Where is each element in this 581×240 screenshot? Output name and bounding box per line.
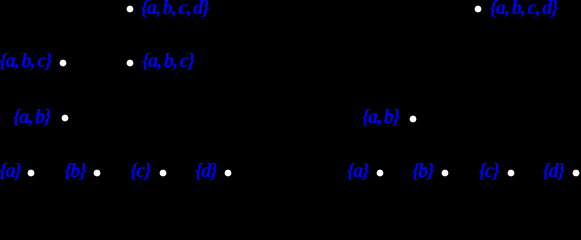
left poset: node {a,b,c} (second) dot bbox=[125, 58, 135, 68]
left poset: node {d} label bbox=[195, 159, 217, 183]
right poset: node {d} dot bbox=[571, 168, 581, 178]
left poset: node {a,b,c,d} label bbox=[141, 0, 209, 20]
right poset: node {b} label bbox=[412, 159, 434, 183]
left poset: node {a,b,c,d} dot bbox=[125, 4, 135, 14]
left poset: node {c} label bbox=[130, 159, 150, 183]
left poset: node {d} dot bbox=[223, 168, 233, 178]
right poset: node {d} label bbox=[543, 159, 565, 183]
left poset: node {b} dot bbox=[92, 168, 102, 178]
left poset: node {a,b} dot bbox=[60, 113, 70, 123]
right poset: node {c} dot bbox=[506, 168, 516, 178]
left poset: node {c} dot bbox=[158, 168, 168, 178]
left poset: node {a} label bbox=[0, 159, 21, 183]
right poset: node {a,b,c,d} dot bbox=[473, 4, 483, 14]
left poset: node {a,b,c} (first) label bbox=[0, 49, 52, 73]
right poset: node {b} dot bbox=[440, 168, 450, 178]
right poset: node {c} label bbox=[479, 159, 499, 183]
left poset: node {a,b,c} (first) dot bbox=[58, 58, 68, 68]
right poset: node {a,b} dot bbox=[408, 114, 418, 124]
left poset: node {b} label bbox=[64, 159, 86, 183]
right poset: node {a} label bbox=[347, 159, 369, 183]
right poset: node {a,b} label bbox=[362, 105, 399, 129]
left poset: node {a,b} label bbox=[13, 105, 50, 129]
left poset: node {a,b,c} (second) label bbox=[142, 49, 194, 73]
right poset: node {a,b,c,d} label bbox=[490, 0, 558, 20]
right poset: node {a} dot bbox=[375, 168, 385, 178]
left poset: node {a} dot bbox=[26, 168, 36, 178]
